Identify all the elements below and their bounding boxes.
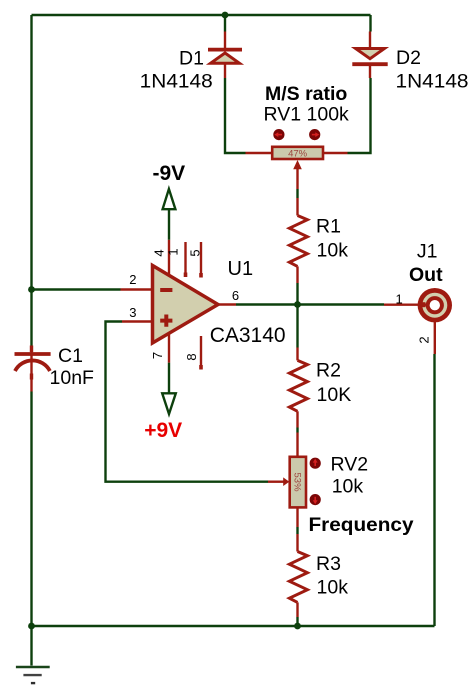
- diode D2: [352, 32, 387, 79]
- svg-text:2: 2: [417, 336, 432, 343]
- svg-text:10k: 10k: [317, 577, 349, 599]
- svg-text:1: 1: [166, 248, 181, 255]
- svg-text:R3: R3: [316, 553, 341, 575]
- node ground junction: [28, 623, 35, 630]
- node top junction: [222, 12, 229, 19]
- RV1 increase button: [309, 129, 320, 140]
- U1 pin 5 stub: [200, 242, 202, 278]
- node R3 bottom junction: [294, 623, 301, 630]
- potentiometer RV1: [272, 147, 323, 189]
- svg-text:53%: 53%: [292, 472, 303, 492]
- wire R2 to RV2: [296, 411, 298, 457]
- potentiometer RV2: [268, 457, 306, 508]
- U1 pin 8 stub: [200, 336, 202, 370]
- svg-text:J1: J1: [417, 241, 438, 263]
- wire R3 to bottom bus: [296, 602, 298, 626]
- op-amp U1: [153, 266, 219, 344]
- svg-text:4: 4: [152, 249, 167, 256]
- U1 pin 1 stub: [184, 242, 186, 277]
- svg-text:7: 7: [150, 352, 165, 359]
- ground: [16, 626, 50, 683]
- wire R1 to output node: [296, 266, 298, 304]
- resistor R1: [289, 216, 307, 267]
- svg-text:8: 8: [184, 353, 199, 360]
- svg-text:5: 5: [188, 249, 203, 256]
- U1 pin 3 wire: [106, 322, 269, 482]
- svg-text:1: 1: [396, 292, 403, 307]
- svg-text:C1: C1: [58, 345, 83, 367]
- svg-text:1N4148: 1N4148: [396, 71, 469, 93]
- capacitor C1: [15, 290, 51, 627]
- power -9V arrow: [163, 189, 176, 240]
- wire D2 to RV1 right terminal: [323, 78, 371, 153]
- wire output node to R2: [296, 305, 298, 361]
- connector J1: [384, 288, 452, 322]
- svg-text:1N4148: 1N4148: [140, 71, 213, 93]
- svg-text:-9V: -9V: [153, 162, 186, 185]
- svg-text:RV1: RV1: [264, 104, 302, 126]
- RV2 decrease button: [310, 494, 321, 505]
- svg-text:D2: D2: [396, 47, 421, 69]
- wire RV1 wiper to R1: [296, 189, 298, 216]
- wire D2 top stub: [369, 15, 371, 32]
- svg-text:2: 2: [129, 272, 136, 287]
- resistor R2: [289, 360, 307, 411]
- svg-text:R2: R2: [316, 360, 341, 382]
- svg-text:10K: 10K: [317, 384, 352, 406]
- svg-text:RV2: RV2: [331, 454, 369, 476]
- U1 pin 7: [168, 334, 170, 363]
- wire top bus: [32, 15, 371, 290]
- wire D1 to RV1 left terminal: [225, 78, 272, 153]
- RV2 increase button: [310, 458, 321, 469]
- diode D1: [208, 32, 242, 79]
- U1 pin 4: [168, 240, 170, 276]
- svg-text:D1: D1: [179, 48, 204, 70]
- svg-text:Frequency: Frequency: [309, 514, 414, 536]
- wire RV2 to R3: [296, 507, 298, 551]
- node pin2 junction: [28, 286, 35, 293]
- resistor R3: [289, 552, 307, 603]
- power +9V arrow: [162, 363, 176, 414]
- svg-text:10nF: 10nF: [50, 367, 95, 389]
- svg-text:47%: 47%: [288, 149, 308, 160]
- svg-text:R1: R1: [316, 216, 341, 238]
- svg-text:3: 3: [129, 305, 136, 320]
- wire J1 pin 2 down: [433, 321, 436, 626]
- svg-text:U1: U1: [228, 258, 254, 280]
- svg-text:10k: 10k: [332, 475, 364, 497]
- svg-text:+9V: +9V: [144, 419, 182, 442]
- wire U1 pin 6 output: [218, 303, 384, 305]
- wire bottom bus: [32, 625, 435, 627]
- node output junction: [294, 301, 301, 308]
- svg-text:100k: 100k: [307, 104, 350, 126]
- wire top bus to D1: [224, 15, 226, 32]
- RV1 decrease button: [273, 129, 284, 140]
- U1 pin 2 wire: [32, 288, 153, 290]
- svg-text:6: 6: [232, 288, 239, 303]
- svg-text:CA3140: CA3140: [210, 324, 286, 347]
- svg-text:10k: 10k: [317, 240, 349, 262]
- svg-text:Out: Out: [409, 264, 443, 286]
- svg-text:M/S ratio: M/S ratio: [265, 83, 347, 105]
